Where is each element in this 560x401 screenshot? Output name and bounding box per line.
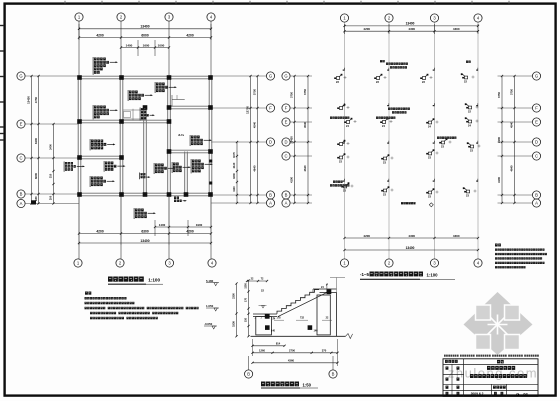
svg-text:13430: 13430 <box>290 136 294 144</box>
svg-text:4360: 4360 <box>288 358 295 362</box>
svg-text:B: B <box>20 192 23 197</box>
svg-text:G: G <box>19 74 22 79</box>
svg-text:4100: 4100 <box>497 177 501 183</box>
svg-text:1536: 1536 <box>232 321 236 327</box>
svg-text:1.050: 1.050 <box>206 304 214 308</box>
svg-text:C: C <box>19 156 22 161</box>
svg-text:1070: 1070 <box>232 152 236 158</box>
svg-text:3750: 3750 <box>290 92 294 98</box>
svg-text:3750: 3750 <box>303 89 307 95</box>
svg-text:13400: 13400 <box>406 22 415 26</box>
svg-text:13400: 13400 <box>406 246 415 250</box>
svg-text:4300: 4300 <box>453 234 460 238</box>
svg-text:3400: 3400 <box>34 137 38 144</box>
svg-text:E: E <box>285 120 288 125</box>
svg-text:B: B <box>269 193 272 198</box>
svg-text:1400: 1400 <box>126 43 133 47</box>
svg-text:A: A <box>20 201 23 206</box>
svg-text:4640: 4640 <box>253 165 257 172</box>
svg-text:12750: 12750 <box>246 106 250 114</box>
svg-text:4640: 4640 <box>510 165 514 171</box>
svg-text:2350: 2350 <box>232 293 236 299</box>
svg-text:4540: 4540 <box>253 121 257 128</box>
svg-text:4200: 4200 <box>186 33 194 37</box>
svg-text:G: G <box>535 74 538 79</box>
svg-text:4200: 4200 <box>363 27 370 31</box>
svg-text:F: F <box>285 106 288 111</box>
svg-text:140: 140 <box>271 329 276 332</box>
svg-text:1630: 1630 <box>232 173 236 179</box>
svg-text:B: B <box>535 193 538 198</box>
svg-text:JL7a: JL7a <box>178 133 184 137</box>
svg-text:13430: 13430 <box>27 96 31 104</box>
svg-text:G: G <box>284 74 287 79</box>
svg-text:2400: 2400 <box>497 137 501 143</box>
svg-text:E: E <box>535 120 538 125</box>
svg-text:B: B <box>285 193 288 198</box>
svg-text:A: A <box>285 201 288 206</box>
svg-text:140: 140 <box>314 329 319 332</box>
svg-text:B: B <box>332 372 335 377</box>
svg-text:4300: 4300 <box>453 27 460 31</box>
svg-text:2700: 2700 <box>289 348 295 352</box>
svg-text:1:100: 1:100 <box>148 278 160 283</box>
svg-text:G: G <box>269 74 272 79</box>
svg-text:1110: 1110 <box>232 186 236 192</box>
svg-text:4200: 4200 <box>363 234 370 238</box>
svg-text:2120: 2120 <box>232 162 236 168</box>
svg-text:4640: 4640 <box>303 165 307 171</box>
svg-text:200: 200 <box>49 195 53 200</box>
svg-text:C: C <box>535 154 538 159</box>
svg-text:1260: 1260 <box>259 348 265 352</box>
svg-text:4300: 4300 <box>408 27 415 31</box>
svg-text:178: 178 <box>277 317 282 320</box>
svg-text:G—04: G—04 <box>516 391 528 396</box>
svg-text:13400: 13400 <box>140 25 149 29</box>
svg-text:D: D <box>269 140 272 145</box>
svg-text:1:100: 1:100 <box>427 273 439 278</box>
svg-text:D: D <box>284 140 287 145</box>
svg-text:4750: 4750 <box>34 96 38 103</box>
svg-text:6300: 6300 <box>141 229 149 233</box>
svg-text:4200: 4200 <box>96 33 104 37</box>
svg-text:1300: 1300 <box>245 283 248 289</box>
svg-text:3600: 3600 <box>34 172 38 179</box>
svg-text:A: A <box>269 201 272 206</box>
svg-text:D: D <box>535 140 538 145</box>
svg-text:-1~5: -1~5 <box>360 272 369 277</box>
svg-text:3750: 3750 <box>510 89 514 95</box>
svg-text:4300: 4300 <box>408 234 415 238</box>
svg-text:3750: 3750 <box>497 92 501 98</box>
svg-text:150: 150 <box>245 317 248 322</box>
svg-text:4540: 4540 <box>510 122 514 128</box>
svg-text:6000: 6000 <box>141 33 149 37</box>
svg-text:4100: 4100 <box>290 177 294 183</box>
svg-text:5.180: 5.180 <box>206 279 214 283</box>
svg-text:1400: 1400 <box>159 223 166 227</box>
svg-text:F: F <box>269 106 272 111</box>
svg-text:1000: 1000 <box>158 43 165 47</box>
svg-text:2009.6.2: 2009.6.2 <box>471 392 484 396</box>
svg-text:E: E <box>20 122 23 127</box>
svg-text:3750: 3750 <box>253 88 257 95</box>
svg-text:1:50: 1:50 <box>303 382 312 387</box>
svg-text:4200: 4200 <box>96 229 104 233</box>
svg-text:732: 732 <box>300 317 305 320</box>
svg-text:C: C <box>284 154 287 159</box>
svg-text:170: 170 <box>245 297 248 302</box>
svg-text:A: A <box>535 201 538 206</box>
svg-text:13400: 13400 <box>140 239 149 243</box>
svg-text:4540: 4540 <box>303 122 307 128</box>
svg-text:370: 370 <box>322 348 327 352</box>
svg-text:F: F <box>535 106 538 111</box>
svg-text:B: B <box>247 372 250 377</box>
svg-text:4200: 4200 <box>186 229 194 233</box>
svg-text:1600: 1600 <box>143 43 150 47</box>
svg-text:310: 310 <box>49 173 53 178</box>
svg-text:814: 814 <box>276 342 281 346</box>
svg-text:2400: 2400 <box>49 144 53 150</box>
svg-text:-0.050: -0.050 <box>204 322 213 326</box>
svg-text:1900: 1900 <box>196 223 203 227</box>
